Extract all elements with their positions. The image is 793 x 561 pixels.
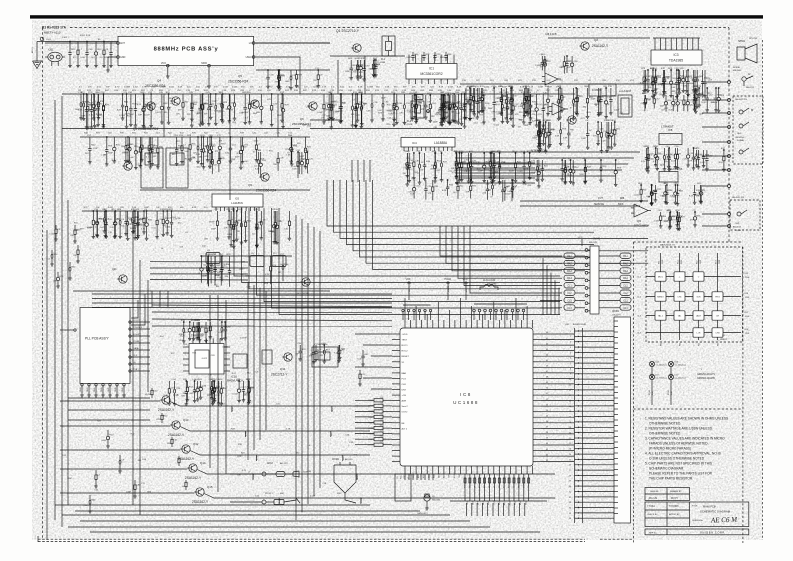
svg-text:5.6K: 5.6K <box>419 169 424 171</box>
svg-text:5.6K: 5.6K <box>555 136 560 138</box>
svg-text:2SA1162-Y: 2SA1162-Y <box>192 500 209 504</box>
inductor (filler) <box>693 148 695 157</box>
capacitor (filler) <box>174 381 176 389</box>
resistor stub on cascade wire <box>255 455 257 461</box>
pull-up comb above IC8 top left <box>402 312 404 320</box>
resistor (filler) <box>481 88 483 98</box>
inductor (filler) <box>512 94 514 106</box>
svg-text:8.2K: 8.2K <box>688 105 693 107</box>
svg-text:VCC: VCC <box>406 278 411 281</box>
wire main RF rail <box>62 93 560 95</box>
capacitor (filler) <box>703 150 705 157</box>
capacitor (filler) <box>694 185 696 193</box>
svg-text:10U: 10U <box>430 87 434 89</box>
svg-text:2SC3356-R24: 2SC3356-R24 <box>228 80 248 84</box>
svg-text:100P: 100P <box>381 97 386 99</box>
svg-text:PLG: PLG <box>402 378 407 380</box>
svg-text:33P: 33P <box>80 229 84 231</box>
capacitor (filler) <box>96 211 98 222</box>
svg-text:47P: 47P <box>428 193 432 195</box>
capacitor (filler) <box>461 94 463 108</box>
svg-text:C18: C18 <box>469 485 471 488</box>
capacitor (filler) <box>355 94 357 109</box>
svg-text:47P: 47P <box>688 161 692 163</box>
svg-text:4.7U: 4.7U <box>204 156 209 158</box>
svg-text:SEG1: SEG1 <box>439 473 441 478</box>
vertical bus lines second group <box>247 282 249 460</box>
capacitor (filler) <box>288 211 290 221</box>
transistor Q12 <box>182 445 190 453</box>
svg-text:R10: R10 <box>504 485 506 488</box>
key button CH3 <box>712 328 723 337</box>
wires into keypad connector from left <box>540 255 562 257</box>
svg-text:B1 Rx-0323 17A: B1 Rx-0323 17A <box>42 26 67 30</box>
svg-text:4.7U: 4.7U <box>242 470 247 472</box>
svg-text:47K: 47K <box>351 114 355 116</box>
capacitor (filler) <box>449 95 451 108</box>
wires connecting IC4 area down to staircase <box>351 160 353 182</box>
antenna AT101 <box>40 37 44 41</box>
resistor (filler) <box>216 211 218 221</box>
long verticals middle-left group 2 <box>209 295 211 468</box>
svg-text:LO: LO <box>249 42 252 45</box>
IC3 TDA1985 box <box>651 50 702 65</box>
svg-text:R18: R18 <box>518 485 520 488</box>
svg-text:AD0: AD0 <box>443 474 446 478</box>
svg-text:DTC144EH: DTC144EH <box>634 224 649 228</box>
PLL bottom pins <box>81 384 83 386</box>
inductor (filler) <box>468 153 470 163</box>
svg-text:0.047: 0.047 <box>104 57 110 59</box>
transistor Q2 <box>581 42 589 50</box>
svg-text:47P: 47P <box>205 331 209 333</box>
resistor R108 on IC8 left pin <box>374 443 383 446</box>
inductor (filler) <box>515 153 517 163</box>
svg-text:SmixT: SmixT <box>402 406 409 408</box>
svg-text:C57: C57 <box>523 485 525 488</box>
IC8 UC1688 body <box>400 328 533 466</box>
key button LAST <box>693 311 704 320</box>
svg-text:0.047: 0.047 <box>223 87 229 89</box>
capacitor (filler) <box>584 160 586 168</box>
capacitor (filler) <box>655 70 657 77</box>
resistor (filler) <box>694 70 696 77</box>
capacitor (filler) <box>663 70 665 82</box>
svg-text:47P: 47P <box>683 105 687 107</box>
connector dots on right dashed boundary <box>728 81 731 84</box>
resistor (filler) <box>610 88 612 100</box>
svg-text:0.047: 0.047 <box>671 160 677 162</box>
capacitor (filler) <box>113 137 115 147</box>
capacitor (filler) <box>328 94 330 105</box>
wire from Q13 collector to right <box>180 427 370 432</box>
capacitor (filler) <box>211 137 213 146</box>
filter FL2 box <box>411 101 424 118</box>
capacitor (filler) <box>134 211 136 224</box>
capacitor (filler) <box>218 381 220 391</box>
svg-text:5.6K: 5.6K <box>132 207 137 209</box>
capacitor (filler) <box>665 95 667 102</box>
capacitor bottom-left <box>107 430 109 436</box>
key button MU.U <box>655 272 666 281</box>
capacitor (filler) <box>473 88 475 100</box>
inductor (filler) <box>429 95 431 104</box>
svg-text:0.022: 0.022 <box>614 110 620 112</box>
inductor (filler) <box>647 148 649 159</box>
capacitor (filler) <box>646 148 648 158</box>
pin GND of 888MHz module <box>117 56 120 59</box>
resistor (filler) <box>127 137 129 145</box>
inductor (filler) <box>96 211 98 221</box>
inductor (filler) <box>528 88 530 97</box>
keypad connector box <box>590 246 599 314</box>
resistor (filler) <box>166 211 168 220</box>
svg-text:2SC3356-R24: 2SC3356-R24 <box>256 189 276 193</box>
shield filter box L5 <box>141 148 163 188</box>
key button TAL.1 <box>655 311 666 320</box>
capacitor (filler) <box>449 94 451 105</box>
capacitor (filler) <box>683 95 685 100</box>
base resistor of Q18 <box>151 388 153 390</box>
inductor (filler) <box>323 345 325 350</box>
svg-text:FL2: FL2 <box>407 120 412 123</box>
svg-text:0.047: 0.047 <box>448 87 454 89</box>
svg-text:1/16W: 1/16W <box>711 102 717 104</box>
svg-text:BAR: BAR <box>402 372 407 375</box>
resistor (filler) <box>441 153 443 163</box>
crystal X101 oval component <box>48 52 62 62</box>
IC8 bottom pins <box>404 466 406 474</box>
inductor (filler) <box>191 94 193 109</box>
inductor (filler) <box>98 94 100 102</box>
svg-text:0.022: 0.022 <box>138 225 144 227</box>
svg-text:33P: 33P <box>436 170 440 172</box>
pin VCO bottom of 888MHz module <box>167 64 170 67</box>
resistor (filler) <box>142 94 144 108</box>
capacitor (filler) <box>558 88 560 100</box>
capacitor (filler) <box>413 180 415 188</box>
resistor (filler) <box>176 137 178 150</box>
page dashed border top <box>70 27 729 29</box>
svg-text:OUT2: OUT2 <box>402 412 409 414</box>
svg-text:1/16W: 1/16W <box>361 497 363 503</box>
top-left small parts row <box>69 42 71 53</box>
svg-text:0.047: 0.047 <box>654 220 660 222</box>
capacitor (filler) <box>493 88 495 103</box>
svg-text:10U: 10U <box>91 57 95 59</box>
capacitor on RF rail <box>182 94 184 103</box>
inductor (filler) <box>274 211 276 223</box>
svg-text:LA1186N: LA1186N <box>231 201 242 205</box>
pin right 1 of 888MHz module <box>252 42 255 45</box>
svg-text:4.7U: 4.7U <box>671 220 676 222</box>
capacitor (filler) <box>542 122 544 129</box>
resistor (filler) <box>527 88 529 100</box>
svg-text:100P: 100P <box>649 84 654 86</box>
CN301 inner ticks <box>614 320 618 322</box>
svg-text:5.6K: 5.6K <box>84 505 89 507</box>
dashed accessory box lower <box>730 200 760 230</box>
title block small table <box>645 488 690 501</box>
svg-text:GND: GND <box>122 387 124 392</box>
svg-text:L7: L7 <box>494 486 496 488</box>
capacitor (filler) <box>483 94 485 107</box>
svg-text:GND: GND <box>94 387 96 392</box>
capacitor (filler) <box>678 212 680 217</box>
inductor (filler) <box>610 122 612 133</box>
svg-text:0.022: 0.022 <box>494 125 500 127</box>
svg-text:AD12: AD12 <box>267 462 273 465</box>
svg-text:Q14: Q14 <box>200 461 206 465</box>
inductor (filler) <box>196 322 198 327</box>
svg-text:C57: C57 <box>514 485 516 488</box>
inductor (filler) <box>441 94 443 106</box>
resistor (filler) <box>678 70 680 78</box>
svg-text:10K: 10K <box>156 207 160 209</box>
IC8 right pins <box>533 333 541 335</box>
capacitor (filler) <box>282 94 284 109</box>
capacitor (filler) <box>208 256 210 268</box>
inductor (filler) <box>655 148 657 155</box>
svg-text:1/16W: 1/16W <box>209 221 215 223</box>
capacitor (filler) <box>201 256 203 268</box>
svg-text:100P: 100P <box>488 108 493 110</box>
svg-text:PLL PCB ASS’Y: PLL PCB ASS’Y <box>85 337 110 341</box>
resistor stub on cascade wire <box>252 474 254 480</box>
PLL left pin <box>74 329 76 331</box>
svg-text:4.7U: 4.7U <box>133 87 138 89</box>
svg-text:47K: 47K <box>319 355 323 357</box>
svg-text:0.047: 0.047 <box>664 221 670 223</box>
svg-text:47P: 47P <box>73 57 77 59</box>
IC1 MC3361COR2 box <box>406 64 457 80</box>
capacitor left of IC8 <box>359 370 361 374</box>
resistor (filler) <box>464 94 466 105</box>
svg-text:Q21: Q21 <box>112 268 117 271</box>
inductor (filler) <box>442 94 444 106</box>
circle test point near FL2 <box>427 110 430 113</box>
svg-text:TL-7008: TL-7008 <box>404 124 413 126</box>
keypad row bus lines <box>646 276 741 278</box>
capacitor (filler) <box>317 70 319 75</box>
jack symbol 2 in accessory box <box>739 124 743 128</box>
components strip 4 coil row <box>200 255 292 257</box>
svg-text:47K: 47K <box>441 109 445 111</box>
svg-text:COM2: COM2 <box>413 473 415 478</box>
svg-text:PA-4023 2/4: PA-4023 2/4 <box>735 98 748 101</box>
svg-text:5.6K: 5.6K <box>184 151 189 153</box>
svg-text:10K: 10K <box>696 195 700 197</box>
shield filter box L6 <box>166 148 188 188</box>
capacitor (filler) <box>298 152 300 162</box>
svg-text:2SA1162-Y: 2SA1162-Y <box>158 408 175 412</box>
IC1 bottom pin comb <box>408 79 410 84</box>
svg-text:4.7U: 4.7U <box>115 87 120 89</box>
resistor (filler) <box>643 70 645 77</box>
inductor (filler) <box>258 152 260 160</box>
resistor R100 on IC8 left pin <box>374 399 383 402</box>
inductor (filler) <box>361 94 363 105</box>
inductor (filler) <box>614 122 616 130</box>
svg-text:0.022: 0.022 <box>505 194 511 196</box>
wire segment above Q1 area <box>256 69 330 71</box>
svg-text:1/16W: 1/16W <box>435 114 441 116</box>
capacitor (filler) <box>256 211 258 224</box>
capacitor on RF rail <box>371 94 373 104</box>
svg-text:AD-150: AD-150 <box>345 458 353 461</box>
svg-text:MOD: MOD <box>201 62 207 65</box>
inductor (filler) <box>453 94 455 104</box>
wire from Q18 collector to right <box>170 402 370 407</box>
svg-text:HOLD: HOLD <box>445 278 452 281</box>
svg-text:1/16W: 1/16W <box>87 227 93 229</box>
capacitor (filler) <box>530 94 532 105</box>
svg-text:33P: 33P <box>81 115 85 117</box>
coil box L11 LT-4036 <box>206 253 220 264</box>
svg-text:C9: C9 <box>528 486 530 488</box>
resistor (filler) <box>470 88 472 96</box>
capacitor (filler) <box>664 185 666 192</box>
capacitor (filler) <box>305 137 307 148</box>
svg-text:KS3: KS3 <box>428 474 430 478</box>
capacitor (filler) <box>103 211 105 218</box>
svg-text:8.2K: 8.2K <box>523 184 528 186</box>
capacitor (filler) <box>205 322 207 328</box>
svg-text:47P: 47P <box>421 109 425 111</box>
resistor (filler) <box>525 88 527 97</box>
svg-text:GND: GND <box>101 387 103 392</box>
capacitor (filler) <box>103 94 105 106</box>
svg-text:47P: 47P <box>486 184 490 186</box>
svg-text:0.022: 0.022 <box>310 496 316 498</box>
svg-text:10U: 10U <box>481 123 485 125</box>
svg-text:47P: 47P <box>524 103 528 105</box>
svg-text:100P: 100P <box>337 493 342 495</box>
inductor (filler) <box>340 94 342 107</box>
wire rail above IC1 to right <box>460 83 680 85</box>
capacitor (filler) <box>677 212 679 217</box>
resistor (filler) <box>214 381 216 388</box>
svg-text:8.2K: 8.2K <box>292 169 297 171</box>
resistor (filler) <box>330 94 332 104</box>
svg-text:R88: R88 <box>620 198 625 200</box>
IC6 bottom pin comb <box>215 207 217 211</box>
svg-text:L101: L101 <box>46 39 52 41</box>
capacitor (filler) <box>249 94 251 104</box>
inductor (filler) <box>267 70 269 77</box>
resistor R105 on IC8 left pin <box>374 426 383 429</box>
keypad region dashed border <box>646 247 743 342</box>
wire Q1 rail <box>330 55 405 57</box>
capacitor (filler) <box>695 88 697 99</box>
svg-text:L4 LA-4203: L4 LA-4203 <box>619 90 632 93</box>
transistor Q3 circle <box>147 102 155 110</box>
vertical drops joining PLL wires <box>151 291 153 307</box>
inductor (filler) <box>273 211 275 225</box>
svg-text:CL3: CL3 <box>494 502 496 505</box>
capacitor on RF rail <box>323 94 325 104</box>
tall connector CN301 rectangle <box>614 317 631 523</box>
svg-text:Q3 2SC3356-R24: Q3 2SC3356-R24 <box>133 127 159 131</box>
capacitor on RF rail <box>332 94 334 105</box>
capacitor (filler) <box>452 95 454 104</box>
svg-text:47K: 47K <box>168 207 172 209</box>
svg-text:GND: GND <box>115 387 117 392</box>
op-amp U2a in IC2 area <box>545 73 558 85</box>
key button △ <box>674 272 685 281</box>
capacitor (filler) <box>443 95 445 106</box>
svg-text:RH5VL48CA: RH5VL48CA <box>227 379 243 383</box>
resistor (filler) <box>143 94 145 107</box>
capacitor (filler) <box>105 211 107 223</box>
resistor R103 on IC8 left pin <box>374 415 383 418</box>
inductor (filler) <box>197 381 199 388</box>
capacitor (filler) <box>571 56 573 63</box>
resistor R104 on IC8 left pin <box>374 421 383 424</box>
resistor (filler) <box>406 153 408 163</box>
crystal Y1 box area <box>312 347 338 367</box>
capacitor (filler) <box>277 152 279 158</box>
wire top-left rail <box>45 41 118 43</box>
capacitor (filler) <box>211 381 213 387</box>
resistor (filler) <box>414 95 416 105</box>
capacitor (filler) <box>615 160 617 171</box>
svg-text:AD-13V: AD-13V <box>280 462 288 465</box>
svg-text:100P: 100P <box>440 57 445 59</box>
inductor (filler) <box>306 152 308 159</box>
svg-text:120P: 120P <box>699 114 704 116</box>
inductor (filler) <box>696 70 698 79</box>
capacitor bottom-left <box>119 455 121 460</box>
IC3 top pin comb with long leads <box>654 38 656 50</box>
inductor (filler) <box>434 153 436 165</box>
transistor Q5 <box>251 100 259 108</box>
IC1 top pin comb <box>408 55 410 64</box>
svg-text:0.022: 0.022 <box>108 207 114 209</box>
IC4 pin comb bottom <box>403 147 405 151</box>
svg-text:0.047: 0.047 <box>509 171 515 173</box>
capacitor (filler) <box>647 148 649 154</box>
base resistor of Q13 <box>161 413 163 415</box>
wire long verticals from top strip down <box>163 94 165 137</box>
inductor (filler) <box>652 70 654 82</box>
svg-text:47K: 47K <box>399 112 403 114</box>
capacitor (filler) <box>234 94 236 103</box>
svg-text:TMG: TMG <box>449 473 451 478</box>
capacitor (filler) <box>668 148 670 158</box>
svg-text:1/16W: 1/16W <box>124 87 130 89</box>
op-amp Q9 DTC144EH <box>634 204 648 217</box>
svg-text:5.6K: 5.6K <box>78 110 83 112</box>
svg-text:Q6: Q6 <box>248 183 252 187</box>
inductor (filler) <box>699 185 701 192</box>
svg-text:8.2K: 8.2K <box>609 136 614 138</box>
capacitor (filler) <box>214 256 216 270</box>
svg-text:AD0: AD0 <box>417 474 420 478</box>
svg-text:1/16W: 1/16W <box>367 87 373 89</box>
capacitor (filler) <box>210 94 212 105</box>
capacitor (filler) <box>157 137 159 148</box>
mid-left long verticals <box>132 230 134 505</box>
svg-text:120P: 120P <box>108 152 113 154</box>
resistor (filler) <box>233 211 235 225</box>
svg-text:8.2K: 8.2K <box>702 102 707 104</box>
capacitor (filler) <box>447 180 449 187</box>
test point TP2 <box>414 95 423 100</box>
keypad column bus lines <box>660 253 662 340</box>
svg-text:CLK: CLK <box>133 355 138 357</box>
capacitor (filler) <box>338 345 340 352</box>
